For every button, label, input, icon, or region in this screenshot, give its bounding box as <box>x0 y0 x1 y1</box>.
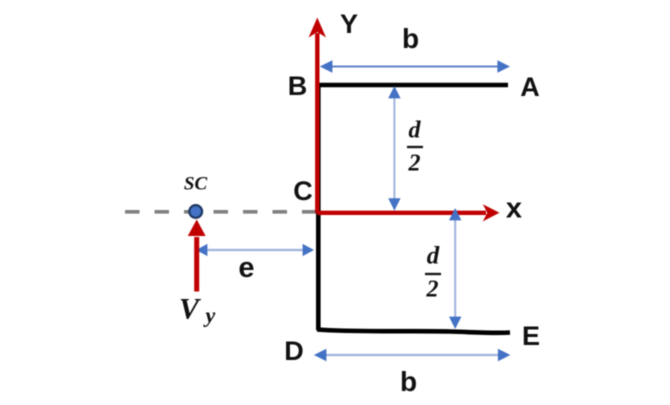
shear center SC dot <box>189 205 202 218</box>
X axis (red) <box>317 204 500 221</box>
label d/2 (upper fraction) <box>407 118 423 177</box>
svg-text:2: 2 <box>426 277 439 303</box>
dimension b (bottom) <box>314 349 511 361</box>
svg-text:C: C <box>293 176 313 206</box>
dimension b (top) <box>320 60 510 72</box>
dashed centerline through SC <box>125 210 317 214</box>
shear force Vy arrow (red) <box>188 220 206 292</box>
svg-text:d: d <box>427 243 440 270</box>
channel web B-C-D <box>316 83 321 330</box>
dimension d/2 (upper) <box>388 86 400 211</box>
svg-text:2: 2 <box>408 151 421 177</box>
label d/2 (lower fraction) <box>425 243 441 303</box>
svg-text:Y: Y <box>340 9 358 39</box>
svg-text:A: A <box>520 72 540 102</box>
label Vy <box>179 293 216 328</box>
dimension d/2 (lower) <box>449 208 461 329</box>
svg-text:e: e <box>238 252 254 284</box>
top flange B-A <box>317 83 508 88</box>
svg-text:d: d <box>409 118 422 144</box>
dimension e <box>196 244 314 256</box>
svg-text:x: x <box>506 193 522 225</box>
Y axis (red) <box>309 18 326 214</box>
bottom flange D-E <box>317 330 510 333</box>
svg-text:SC: SC <box>184 174 208 195</box>
svg-text:E: E <box>522 321 540 351</box>
svg-text:V: V <box>179 293 202 326</box>
svg-text:b: b <box>402 23 419 54</box>
svg-text:D: D <box>284 336 304 366</box>
svg-text:b: b <box>400 366 417 397</box>
svg-text:B: B <box>288 71 308 101</box>
